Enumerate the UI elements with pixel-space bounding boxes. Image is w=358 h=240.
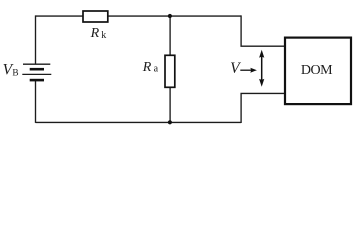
wire top horizontal	[36, 15, 242, 17]
wire bottom horizontal	[36, 121, 242, 123]
label Rk	[90, 26, 107, 41]
svg-text:R: R	[90, 26, 100, 41]
svg-text:B: B	[12, 69, 18, 79]
node junction dot bottom	[168, 120, 172, 124]
label DOM	[301, 63, 333, 78]
label Ra	[142, 60, 159, 75]
arrow vertical double-headed (voltage V across DOM input)	[259, 50, 264, 87]
svg-text:k: k	[101, 30, 106, 41]
arrow horizontal pointer from V label	[240, 68, 257, 73]
wire right bottom corner segment	[241, 93, 284, 123]
node junction dot top	[168, 14, 172, 18]
svg-text:V: V	[230, 60, 241, 77]
label VB	[3, 62, 19, 79]
battery VB plate long thin 2	[22, 73, 51, 75]
label V (measured voltage)	[230, 60, 241, 77]
battery VB plate short thick 1	[30, 68, 44, 71]
wire left vertical lower (battery bottom lead)	[35, 80, 37, 123]
wire right top corner segment	[241, 15, 284, 46]
svg-text:a: a	[154, 64, 159, 75]
resistor Ra	[165, 55, 175, 87]
battery VB plate long thin 1	[23, 63, 50, 65]
battery VB plate short thick 2	[30, 79, 44, 82]
box DOM	[285, 38, 351, 105]
wire left vertical upper (battery top lead)	[35, 15, 37, 64]
resistor Rk	[83, 11, 108, 22]
svg-text:DOM: DOM	[301, 63, 333, 78]
wire middle vertical branch	[169, 16, 171, 122]
svg-text:R: R	[142, 60, 152, 75]
